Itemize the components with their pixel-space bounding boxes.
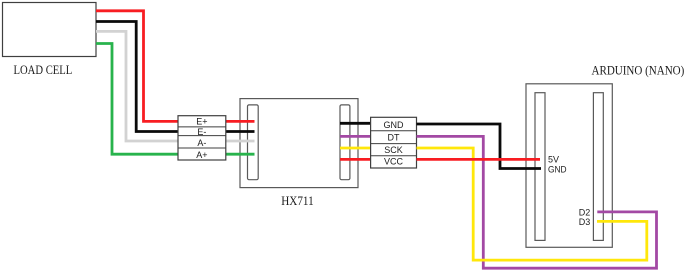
wire red VCC to arduino 5V (417, 158, 541, 161)
wire yellow SCK stub from HX711 (340, 147, 371, 150)
wire purple DT to arduino D2 (417, 136, 657, 268)
arduino left pin header (535, 93, 545, 241)
HX711 body (240, 99, 358, 188)
connector E+/E-/A-/A+ (178, 116, 226, 160)
wire black GND to arduino (417, 124, 542, 169)
svg-text:LOAD CELL: LOAD CELL (14, 63, 73, 77)
svg-text:VCC: VCC (384, 156, 404, 166)
svg-text:A+: A+ (196, 150, 207, 160)
svg-text:GND: GND (548, 164, 567, 174)
wire yellow SCK to arduino D3 (417, 148, 647, 260)
wire red E+ stub to HX711 (226, 120, 255, 123)
svg-text:E+: E+ (196, 117, 207, 127)
connector GND/DT/SCK/VCC (371, 117, 417, 168)
wire gray A- stub to HX711 (226, 140, 255, 143)
svg-text:GND: GND (384, 120, 405, 130)
wire green A+ from load cell (96, 44, 178, 155)
wire purple DT stub from HX711 (340, 135, 371, 138)
wire red VCC stub from HX711 (340, 158, 371, 161)
svg-text:HX711: HX711 (281, 194, 314, 208)
svg-text:E-: E- (197, 127, 206, 137)
load cell body (3, 3, 97, 57)
wire black GND stub from HX711 (340, 122, 371, 125)
svg-text:ARDUINO (NANO): ARDUINO (NANO) (592, 64, 685, 78)
HX711 right pin header (340, 105, 350, 180)
svg-text:DT: DT (388, 132, 400, 142)
arduino body (526, 84, 612, 248)
wire green A+ stub to HX711 (226, 153, 255, 156)
wire black E- from load cell (96, 22, 178, 132)
svg-text:5V: 5V (548, 154, 559, 164)
svg-text:A-: A- (197, 138, 206, 148)
wire black E- stub to HX711 (226, 130, 255, 133)
arduino right pin header (593, 93, 603, 241)
svg-text:SCK: SCK (384, 145, 403, 155)
svg-text:D3: D3 (579, 217, 591, 227)
wire gray A- from load cell (96, 31, 178, 141)
HX711 left pin header (248, 105, 259, 180)
wire red E+ from load cell (96, 11, 178, 122)
